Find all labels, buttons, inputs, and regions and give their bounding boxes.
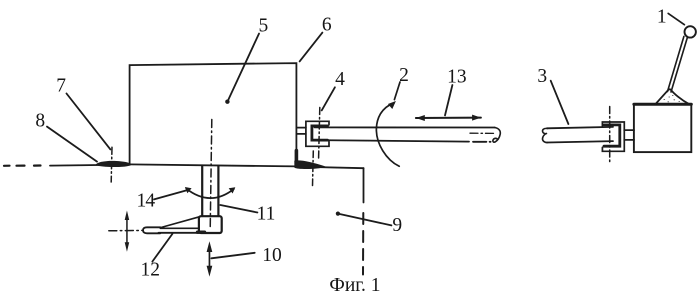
- right weld axis (dash-dot vertical): [312, 151, 315, 186]
- baseline right segment to step: [296, 167, 363, 169]
- lever knob ball: [685, 26, 696, 37]
- svg-text:3: 3: [537, 66, 547, 87]
- horizontal dash-dot at pad level: [109, 229, 143, 231]
- leader 7: [67, 94, 111, 150]
- clamp 4 inner bracket: [312, 126, 328, 140]
- gearbox housing: [634, 104, 691, 152]
- double arrow near pad (vertical): [126, 218, 128, 246]
- leader dot 5: [225, 100, 229, 104]
- leader 8: [47, 127, 97, 162]
- weld blob left: [96, 161, 131, 167]
- svg-text:Фиг. 1: Фиг. 1: [329, 275, 380, 293]
- svg-text:13: 13: [447, 67, 467, 88]
- svg-text:1: 1: [657, 7, 667, 28]
- gusset diagonal: [161, 217, 200, 228]
- svg-text:12: 12: [141, 259, 161, 280]
- weld mark at bar/block joint: [198, 230, 205, 233]
- left weld axis (dash-dot vertical): [110, 147, 113, 182]
- long rod end break curl: [493, 128, 500, 143]
- lever mound base: [656, 89, 689, 104]
- leader 12: [152, 234, 172, 262]
- right clamp axis dash-dot: [609, 107, 611, 163]
- shaft 11 right line: [217, 166, 219, 216]
- rotation arc 2: [376, 103, 399, 167]
- mound shading speckles: [664, 96, 680, 102]
- svg-text:5: 5: [259, 15, 269, 36]
- svg-text:6: 6: [322, 15, 332, 36]
- svg-text:2: 2: [399, 65, 409, 86]
- right clamp outer bracket: [602, 122, 624, 151]
- main housing box 5: [130, 63, 297, 164]
- rotation arc 14: [186, 189, 234, 199]
- foot pad 12 (rounded left tab): [143, 227, 160, 233]
- double arrow 10 (vertical): [209, 248, 211, 270]
- arrowheads of arc 14 right: [229, 187, 236, 193]
- leader 2: [394, 82, 400, 100]
- leader 5: [227, 34, 259, 102]
- step vertical solid (wall 9): [363, 168, 365, 202]
- long rod bottom line solid: [315, 140, 470, 142]
- svg-text:11: 11: [257, 204, 276, 225]
- clamp 4 outer bracket: [306, 121, 329, 146]
- clamp 4 axis (dash-dot vertical): [319, 108, 320, 159]
- leader 1: [668, 13, 684, 24]
- arrowhead of arc 2: [388, 101, 396, 109]
- step vertical dashed: [362, 213, 364, 275]
- leader 13: [445, 85, 452, 115]
- shaft 11 left line: [201, 166, 203, 216]
- foot bar top line: [160, 227, 198, 229]
- svg-text:4: 4: [335, 69, 345, 90]
- double arrow 13 line: [416, 117, 481, 119]
- leader 9: [338, 214, 392, 226]
- stub from right clamp to gearbox: [624, 129, 634, 131]
- axis inside housing and shaft 11 (dash-dot vertical): [210, 120, 212, 230]
- long rod top line: [315, 126, 495, 128]
- svg-text:14: 14: [136, 190, 155, 211]
- leader 11: [220, 205, 257, 213]
- rod 3 bottom line: [547, 141, 613, 142]
- leader dot 9: [336, 212, 340, 216]
- stub from housing to clamp 4: [297, 127, 306, 129]
- housing right edge thick lower part: [295, 151, 299, 163]
- svg-text:7: 7: [56, 75, 66, 96]
- leader 3: [551, 81, 569, 124]
- lever arm 1: [668, 36, 684, 91]
- foot block on shaft 11: [199, 216, 222, 233]
- long rod bottom dash-dot: [473, 141, 491, 143]
- arrowheads of double arrow 13: [416, 115, 425, 121]
- long rod centerline dash-dot: [470, 132, 494, 134]
- right clamp inner bracket: [604, 125, 620, 146]
- svg-text:10: 10: [262, 245, 282, 266]
- foot bar bottom line: [159, 232, 200, 234]
- leader 10: [211, 253, 254, 258]
- rod 3 left break curl: [543, 128, 548, 142]
- arrowheads of arc 14 left: [185, 187, 192, 193]
- leader 4: [322, 87, 335, 110]
- svg-text:8: 8: [35, 110, 45, 131]
- baseline dashes far left: [4, 164, 41, 167]
- svg-text:9: 9: [392, 215, 402, 236]
- leader 6: [300, 33, 323, 62]
- gearbox top edge thick: [634, 103, 691, 106]
- leader 14: [154, 190, 186, 199]
- weld blob right and thick housing edge: [294, 160, 326, 169]
- rod 3 top line: [547, 127, 613, 128]
- baseline solid left segment: [50, 165, 130, 166]
- housing bottom edge: [130, 164, 297, 166]
